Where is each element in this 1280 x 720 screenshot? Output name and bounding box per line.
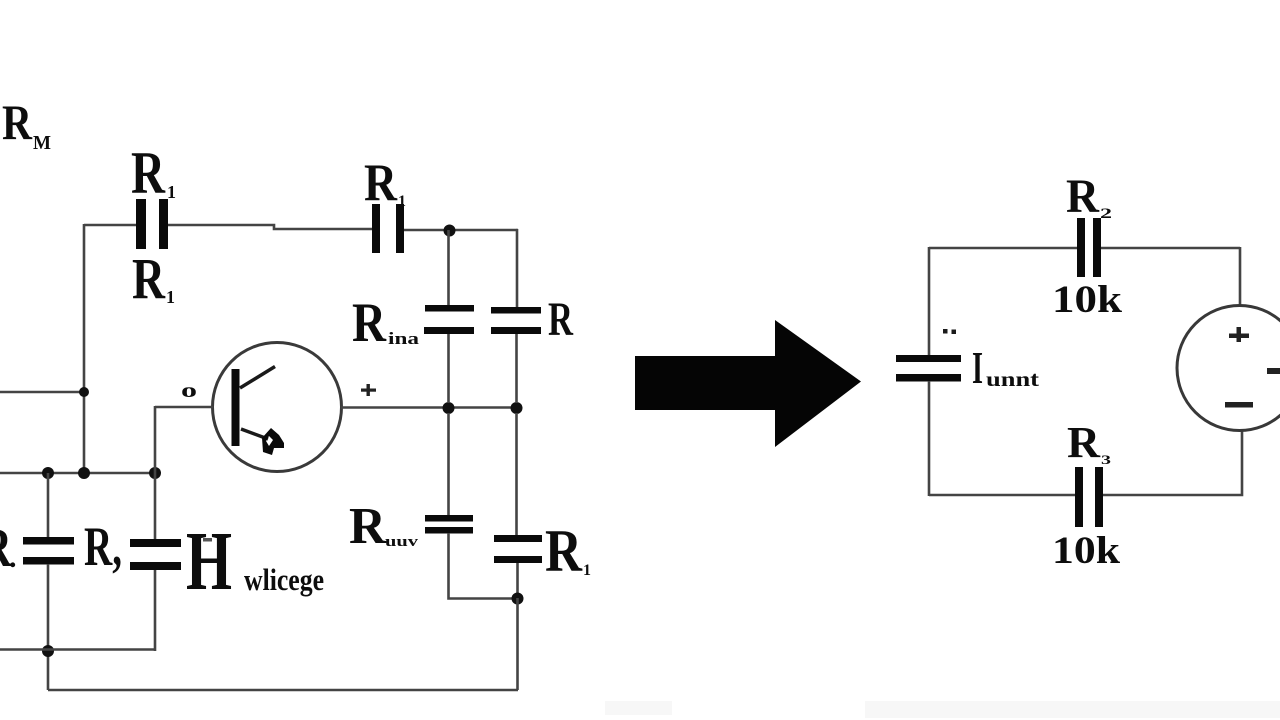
svg-text:R: R <box>349 498 387 555</box>
wire vertical x448 node A to cap Rina <box>447 230 450 305</box>
svg-text:10k: 10k <box>1052 278 1122 321</box>
decorative light band bottom mid <box>605 701 672 715</box>
svg-text:10k: 10k <box>1052 529 1120 572</box>
node A junction dot <box>444 225 456 237</box>
transistor Q1 base bar <box>232 369 240 446</box>
two small dots .. <box>943 329 956 334</box>
arrow (block arrow pointing right) <box>635 320 861 447</box>
svg-text:uuv: uuv <box>385 534 419 550</box>
capacitor C1 (R1) plates <box>136 199 168 249</box>
svg-text:I: I <box>972 342 983 393</box>
capacitor R2 plates <box>1077 218 1101 277</box>
transistor Q1 body circle <box>213 343 342 472</box>
node D junction dot <box>512 593 524 605</box>
wire right circuit bottom right segment <box>1103 431 1242 495</box>
svg-text:o: o <box>181 380 197 402</box>
wire collector lead from Q1 to node B <box>341 406 517 409</box>
wire vertical x516 corner to cap R <box>517 229 519 307</box>
node dot at (84,392) <box>79 387 89 397</box>
svg-text:ina: ina <box>388 329 420 348</box>
svg-text:1: 1 <box>583 562 591 579</box>
transistor Q1 emitter arrowhead <box>262 428 284 455</box>
node dot at (84,473) <box>78 467 90 479</box>
voltage source minus right (clipped) <box>1267 368 1280 374</box>
label + at collector side <box>361 384 376 396</box>
wire stub y473 to left edge <box>0 472 155 475</box>
svg-text:M: M <box>33 132 51 154</box>
svg-text:R: R <box>132 246 166 311</box>
wire stub y392 to left edge <box>0 391 84 394</box>
svg-text:R: R <box>1067 418 1101 467</box>
node dot at (155,473) <box>149 467 161 479</box>
capacitor Rv plates (with H) <box>130 539 181 570</box>
wire vertical x48 cap to bottom <box>47 564 50 690</box>
svg-text:R: R <box>364 154 398 212</box>
wire vertical x516 cap R to node C <box>515 334 518 403</box>
svg-text:1: 1 <box>167 182 176 202</box>
svg-text:R: R <box>352 292 386 354</box>
wire vertical x155 from base lead down <box>154 406 157 473</box>
voltage source plus sign <box>1229 327 1249 342</box>
wire base lead into Q1 <box>155 406 213 409</box>
wire right circuit left vertical upper <box>928 247 931 355</box>
voltage source V1 circle <box>1177 306 1280 431</box>
wire bottom horizontal y691 <box>48 689 518 692</box>
wire vertical x448 node B to cap Ryyy <box>447 413 450 515</box>
svg-text:1: 1 <box>166 287 175 307</box>
node E junction dot (48,651) <box>42 645 54 657</box>
svg-text:2: 2 <box>1100 206 1112 222</box>
wire vertical x155 cap Rv to y650 wire <box>154 570 157 651</box>
capacitor Rx (left edge) plates <box>23 537 74 565</box>
voltage source minus bottom <box>1225 402 1253 408</box>
wire vertical x516 node C to cap R1 <box>515 413 518 535</box>
capacitor R1 lower plates <box>494 535 542 563</box>
wire vertical x448 cap Ryyy down and right to node D <box>449 533 518 599</box>
node B junction dot <box>443 402 455 414</box>
svg-text:1: 1 <box>398 193 406 210</box>
transistor Q1 emitter line <box>241 429 268 439</box>
H inner dash artifact <box>203 538 212 542</box>
svg-text:R: R <box>2 94 33 150</box>
capacitor R plates <box>491 307 541 334</box>
capacitor Iout plates (horizontal) <box>896 355 961 382</box>
wire vertical x517 node D to bottom wire <box>516 598 519 690</box>
wire vertical x448 cap Rina to node B <box>447 334 450 403</box>
transistor Q1 collector line <box>240 367 275 389</box>
node C junction dot <box>511 402 523 414</box>
decorative light band bottom right <box>865 701 1280 718</box>
svg-text:R: R <box>548 293 574 346</box>
wire right circuit top <box>929 247 1077 250</box>
wire left vertical x84 <box>83 224 86 473</box>
svg-text:R: R <box>1066 170 1100 223</box>
svg-text:H: H <box>186 515 232 608</box>
svg-text:R: R <box>545 518 583 584</box>
wire stub y650 to left edge <box>0 648 155 651</box>
node dot at (48,473) <box>42 467 54 479</box>
wire right circuit top right segment <box>1101 247 1240 250</box>
svg-text:unnt: unnt <box>986 367 1039 391</box>
capacitor C2 (R1) plates <box>372 204 404 253</box>
wire right circuit left vertical lower <box>928 381 931 496</box>
capacitor Rina plates <box>424 305 474 334</box>
wire right circuit bottom left segment <box>929 494 1075 497</box>
capacitor R3 plates <box>1075 467 1103 527</box>
svg-text:R: R <box>131 140 166 206</box>
wire vertical x48 from node down through cap <box>47 473 50 537</box>
wire from C2 to node A <box>404 229 517 232</box>
svg-text:.: . <box>9 541 17 574</box>
svg-text:R,: R, <box>84 516 122 578</box>
capacitor Ryyy plates <box>425 515 473 534</box>
wire top-left horizontal segment (base net) <box>84 224 137 227</box>
wire mid horizontal with jog <box>168 225 372 229</box>
wire vertical x517 cap R1 to node D <box>516 563 519 593</box>
wire vertical x155 node to cap Rv <box>154 473 157 539</box>
svg-text:wlicege: wlicege <box>244 562 324 597</box>
svg-text:3: 3 <box>1101 452 1112 467</box>
wire right circuit right vertical upper <box>1239 247 1242 306</box>
